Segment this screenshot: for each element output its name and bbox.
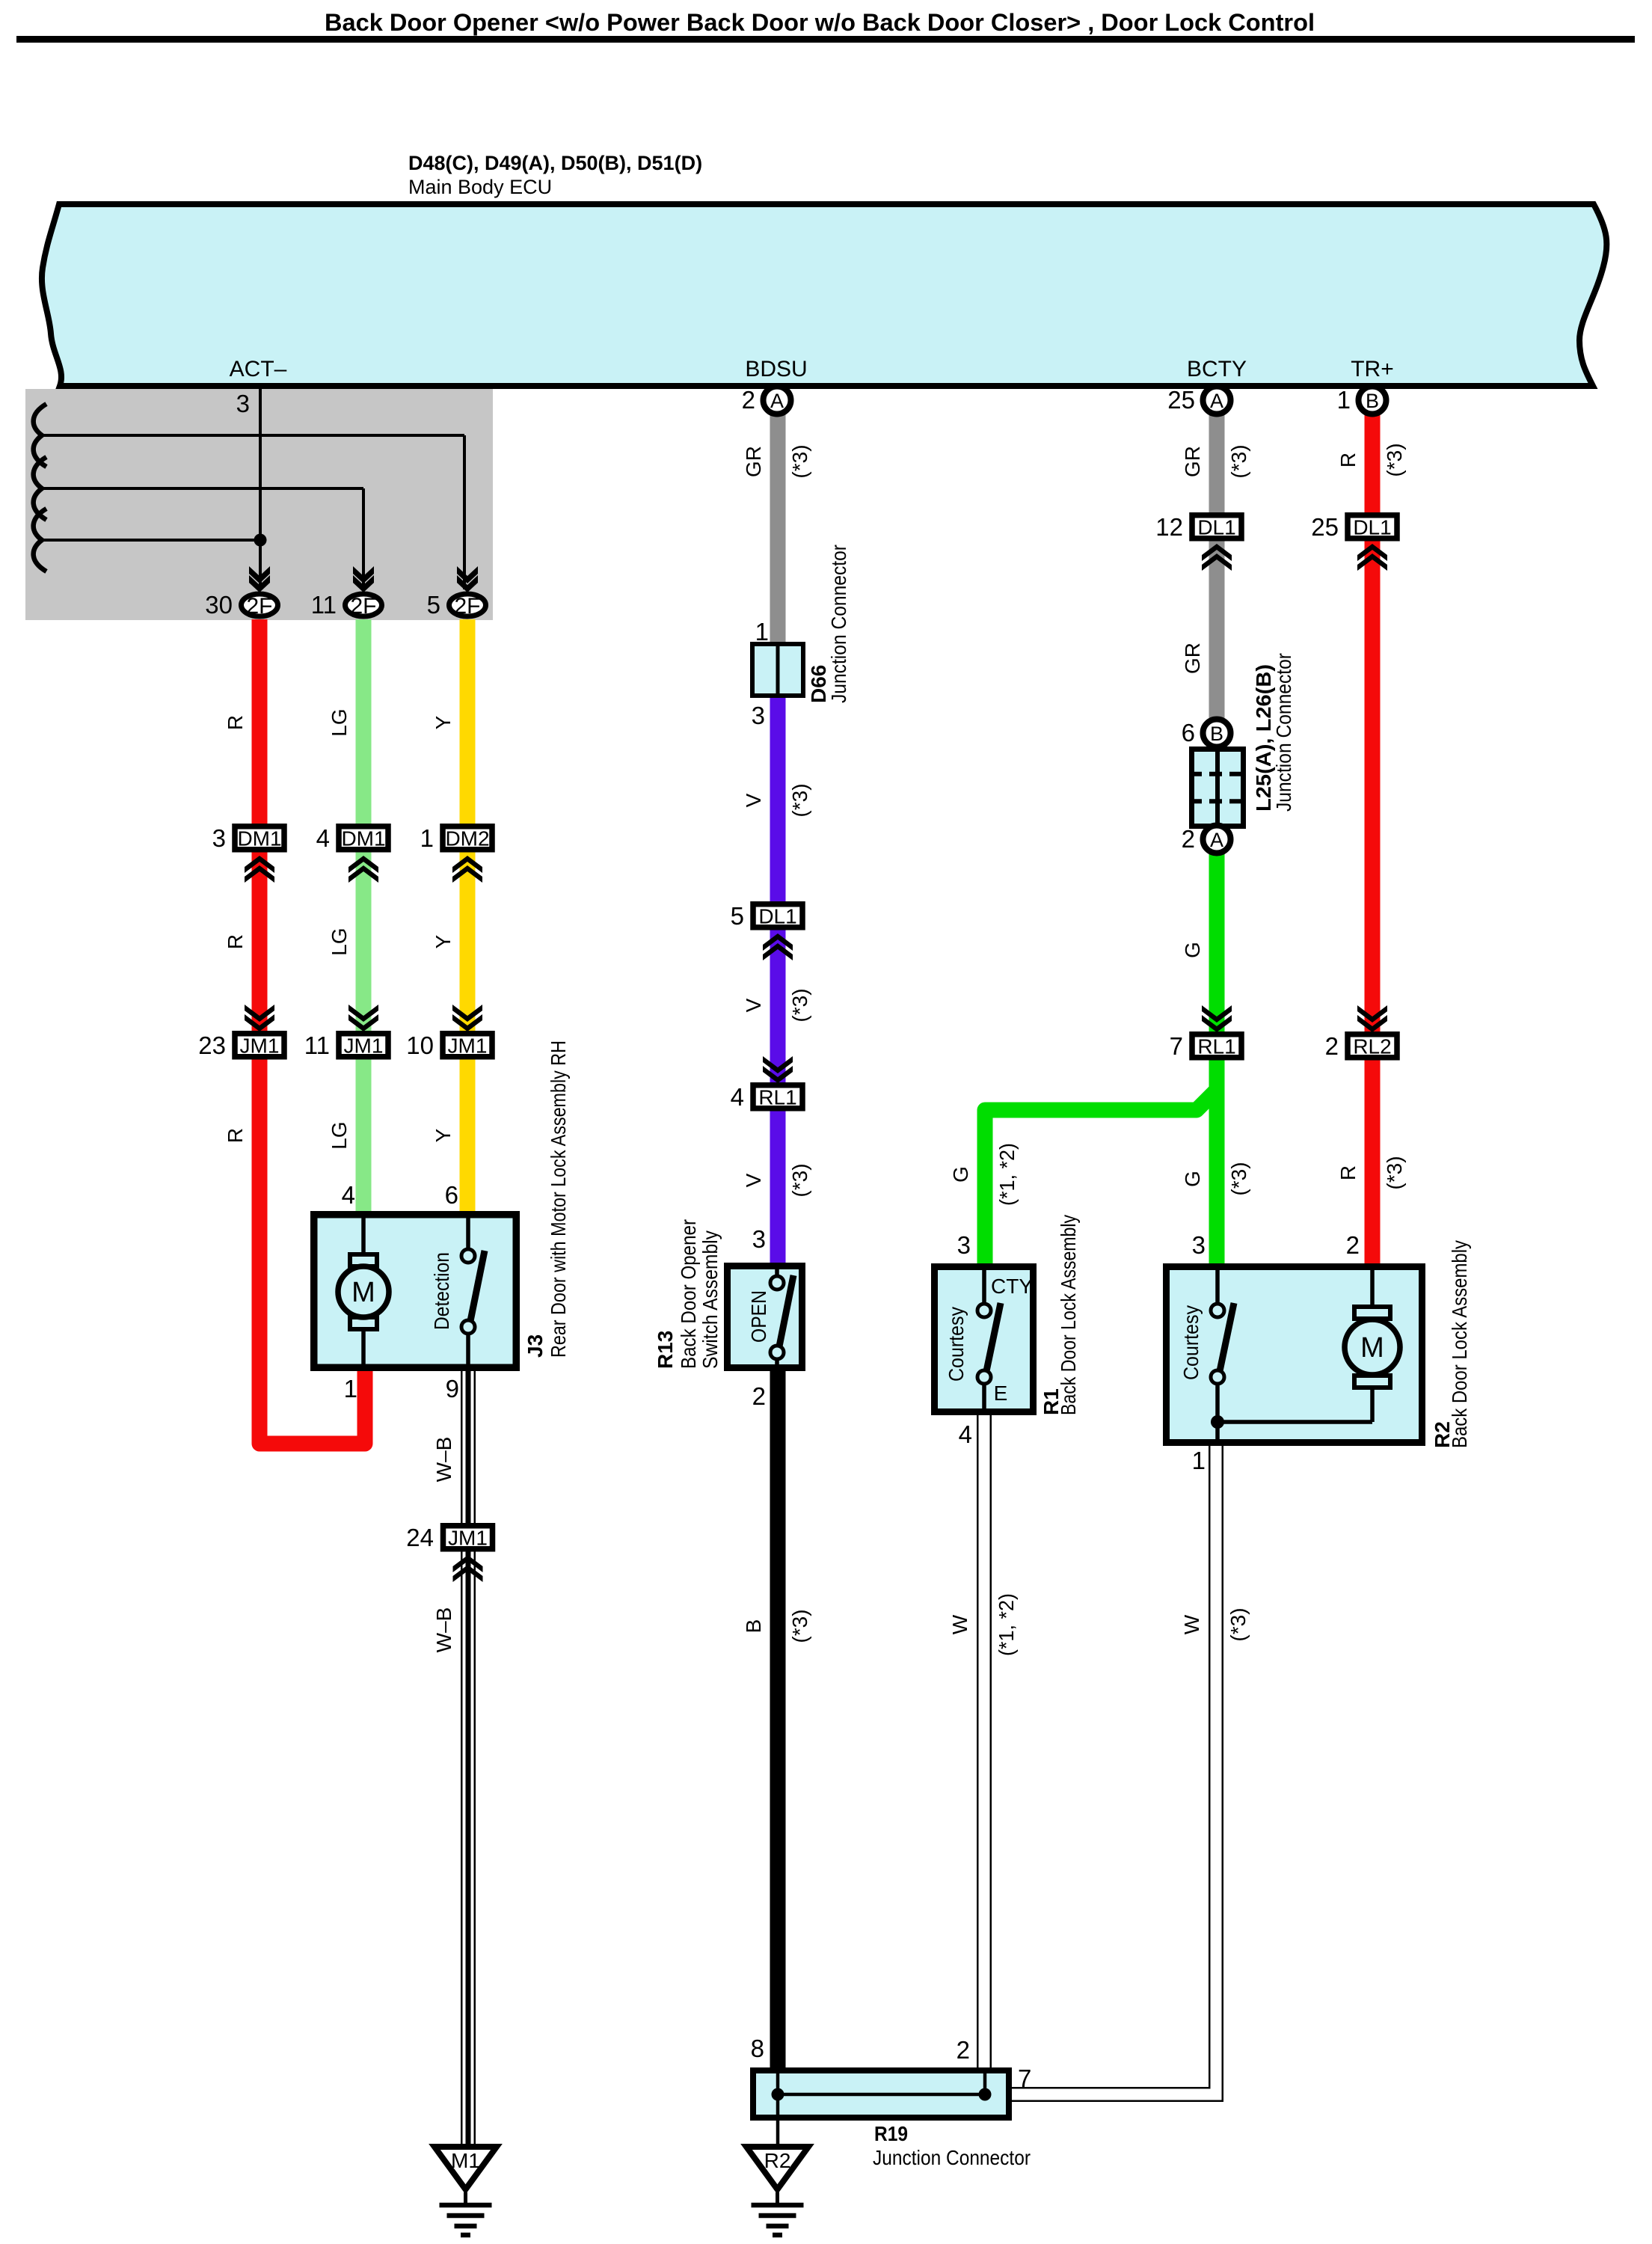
svg-text:(*3): (*3) [788,1163,811,1197]
svg-text:G: G [1181,1171,1204,1187]
svg-text:B: B [1210,723,1223,745]
svg-text:A: A [1210,829,1223,851]
svg-text:(*3): (*3) [788,444,811,478]
svg-text:1: 1 [344,1375,357,1402]
svg-text:BCTY: BCTY [1187,357,1247,381]
svg-text:1: 1 [1192,1447,1206,1474]
svg-text:TR+: TR+ [1351,357,1394,381]
svg-text:12: 12 [1155,513,1183,541]
svg-text:Courtesy: Courtesy [1179,1305,1203,1380]
svg-text:(*3): (*3) [1227,1162,1250,1195]
svg-text:4: 4 [342,1181,355,1209]
svg-text:R2: R2 [764,2149,791,2172]
svg-text:V: V [742,1173,765,1187]
svg-text:E: E [994,1382,1008,1405]
svg-text:J3: J3 [523,1334,547,1358]
svg-text:Back Door Lock Assembly: Back Door Lock Assembly [1448,1240,1471,1448]
svg-text:Y: Y [432,1128,455,1142]
svg-text:GR: GR [742,446,765,477]
svg-text:2: 2 [956,2036,970,2064]
svg-text:Main Body ECU: Main Body ECU [408,176,552,198]
svg-text:R: R [1336,1165,1360,1180]
svg-text:8: 8 [751,2035,764,2062]
svg-text:ACT–: ACT– [230,357,287,381]
svg-text:Y: Y [432,934,455,948]
svg-text:7: 7 [1170,1032,1183,1060]
svg-text:(*1, *2): (*1, *2) [995,1593,1018,1656]
svg-text:2F: 2F [454,594,480,619]
svg-text:Junction Connector: Junction Connector [873,2146,1031,2169]
svg-text:11: 11 [311,591,337,619]
svg-text:LG: LG [328,928,351,955]
svg-text:10: 10 [406,1031,434,1059]
svg-text:JM1: JM1 [448,1034,488,1058]
svg-text:OPEN: OPEN [747,1290,770,1343]
svg-text:V: V [742,998,765,1012]
svg-text:(*1, *2): (*1, *2) [995,1143,1019,1206]
svg-text:GR: GR [1181,446,1204,477]
svg-text:JM1: JM1 [448,1527,488,1550]
svg-text:(*3): (*3) [788,1609,811,1643]
svg-text:1: 1 [420,824,434,852]
svg-text:R: R [1336,453,1360,467]
svg-text:Courtesy: Courtesy [945,1307,968,1382]
svg-text:9: 9 [446,1375,459,1402]
svg-text:G: G [1181,942,1204,958]
svg-text:4: 4 [316,824,330,852]
svg-text:4: 4 [731,1083,744,1111]
svg-text:1: 1 [755,618,769,646]
svg-text:6: 6 [445,1181,458,1209]
svg-text:BDSU: BDSU [745,357,807,381]
svg-text:3: 3 [1192,1231,1206,1259]
svg-text:RL2: RL2 [1353,1035,1391,1058]
svg-text:B: B [742,1619,765,1634]
svg-text:23: 23 [198,1031,226,1059]
svg-text:30: 30 [205,591,233,619]
svg-text:2F: 2F [350,594,376,619]
svg-text:R: R [224,715,247,730]
svg-text:A: A [1210,390,1223,412]
svg-text:LG: LG [328,1121,351,1149]
svg-text:DM1: DM1 [237,827,281,850]
svg-text:6: 6 [1182,719,1195,747]
svg-text:Rear Door with Motor Lock Asse: Rear Door with Motor Lock Assembly RH [547,1040,570,1358]
svg-text:G: G [949,1166,972,1183]
svg-text:(*3): (*3) [1227,444,1250,478]
svg-text:2: 2 [1346,1231,1360,1259]
svg-text:W: W [948,1614,971,1634]
svg-text:RL1: RL1 [1197,1035,1235,1058]
svg-text:2: 2 [1325,1032,1339,1060]
svg-text:5: 5 [731,902,744,930]
svg-text:25: 25 [1311,513,1339,541]
svg-text:Y: Y [432,715,455,729]
svg-text:DM2: DM2 [445,827,489,850]
svg-text:A: A [770,390,784,412]
svg-text:DL1: DL1 [758,905,796,928]
svg-text:M1: M1 [451,2149,480,2172]
svg-text:11: 11 [304,1031,330,1059]
svg-text:DL1: DL1 [1197,516,1235,539]
svg-text:25: 25 [1167,386,1195,414]
svg-text:Switch Assembly: Switch Assembly [698,1230,722,1369]
svg-text:JM1: JM1 [240,1034,280,1058]
svg-text:GR: GR [1181,643,1204,674]
svg-text:3: 3 [752,1225,766,1253]
svg-text:R19: R19 [874,2122,908,2145]
svg-text:1: 1 [1337,386,1351,414]
svg-text:W–B: W–B [432,1437,455,1483]
svg-text:2: 2 [1182,825,1195,853]
svg-text:W: W [1180,1614,1203,1634]
svg-text:Junction Connector: Junction Connector [1272,653,1295,812]
svg-text:Back Door Opener: Back Door Opener [677,1219,700,1369]
svg-text:R: R [224,1128,247,1143]
svg-text:2F: 2F [246,594,272,619]
svg-text:R13: R13 [654,1331,677,1369]
svg-text:M: M [351,1277,375,1308]
svg-text:V: V [742,793,765,807]
svg-text:(*3): (*3) [1383,443,1406,476]
svg-text:B: B [1366,390,1379,412]
svg-text:D48(C), D49(A), D50(B), D51(D): D48(C), D49(A), D50(B), D51(D) [408,152,702,174]
svg-text:(*3): (*3) [1226,1607,1250,1641]
svg-text:24: 24 [406,1524,434,1551]
svg-text:(*3): (*3) [1383,1156,1406,1189]
svg-text:(*3): (*3) [788,783,811,817]
svg-text:3: 3 [212,824,226,852]
svg-text:RL1: RL1 [758,1086,796,1109]
svg-text:3: 3 [236,390,250,417]
svg-text:DM1: DM1 [341,827,385,850]
svg-text:DL1: DL1 [1353,516,1391,539]
svg-text:3: 3 [752,702,765,729]
svg-text:5: 5 [427,591,440,619]
svg-text:2: 2 [752,1382,766,1410]
svg-text:R: R [224,934,247,949]
svg-text:Junction Connector: Junction Connector [827,545,850,703]
svg-text:Detection: Detection [430,1252,453,1330]
svg-text:CTY: CTY [991,1275,1033,1298]
svg-text:2: 2 [742,386,755,414]
svg-text:7: 7 [1018,2064,1031,2092]
svg-text:LG: LG [328,708,351,736]
svg-text:M: M [1360,1332,1384,1364]
svg-text:Back Door Lock Assembly: Back Door Lock Assembly [1057,1215,1080,1415]
svg-text:(*3): (*3) [788,988,811,1022]
svg-text:Back Door Opener <w/o Power Ba: Back Door Opener <w/o Power Back Door w/… [325,9,1315,36]
svg-text:4: 4 [959,1420,972,1448]
svg-text:W–B: W–B [432,1607,455,1653]
svg-text:3: 3 [957,1231,971,1259]
svg-text:JM1: JM1 [344,1034,384,1058]
